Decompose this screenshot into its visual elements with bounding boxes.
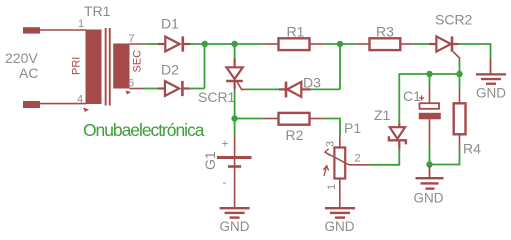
node dot R4 top / SCR2 gate	[456, 71, 462, 77]
svg-text:Z1: Z1	[374, 107, 391, 123]
svg-text:R3: R3	[376, 24, 394, 40]
wire SCR2 gate down	[459, 61, 461, 74]
svg-text:3: 3	[325, 141, 337, 147]
ground under P1	[325, 207, 355, 219]
svg-text:GND: GND	[220, 219, 250, 234]
battery G1	[217, 134, 252, 207]
wire R4 bottom to gnd node	[430, 149, 460, 165]
svg-text:TR1: TR1	[84, 3, 111, 19]
connector X1 220V AC pad bottom	[23, 101, 40, 108]
svg-text:SCR2: SCR2	[435, 12, 473, 28]
thyristor SCR2	[429, 36, 460, 62]
svg-text:2: 2	[355, 153, 361, 165]
resistor R2	[265, 113, 325, 125]
resistor R4	[454, 74, 466, 149]
svg-text:AC: AC	[19, 65, 38, 81]
resistor R1	[265, 38, 325, 50]
resistor R3	[355, 38, 414, 50]
svg-text:R1: R1	[287, 24, 305, 40]
node dot SCR1 cathode / R2 / G1	[231, 115, 237, 121]
svg-text:220V: 220V	[5, 50, 38, 66]
zener diode Z1	[389, 123, 406, 149]
origin marker TR1	[83, 108, 89, 113]
wire SEC7 to D1	[147, 43, 159, 45]
diode D3	[279, 82, 311, 98]
transformer TR1 secondary winding SEC	[113, 44, 129, 89]
svg-text:Onubaelectrónica: Onubaelectrónica	[83, 120, 205, 140]
svg-text:GND: GND	[325, 219, 355, 234]
transformer TR1 core line 2	[109, 28, 111, 106]
wire SCR1 cathode down	[234, 89, 236, 119]
wire D1 out bus y44	[190, 43, 265, 45]
wire SEC6 to D2	[143, 88, 158, 90]
svg-text:D1: D1	[161, 16, 179, 32]
svg-text:GND: GND	[476, 86, 506, 101]
diode D1	[158, 36, 190, 51]
svg-text:C1: C1	[403, 88, 421, 104]
svg-text:SEC: SEC	[132, 50, 144, 73]
svg-text:G1: G1	[202, 151, 218, 170]
wire node to R2	[235, 118, 265, 120]
thyristor SCR1	[226, 58, 246, 89]
potentiometer P1	[323, 135, 369, 207]
diode D2	[158, 81, 189, 96]
svg-text:GND: GND	[414, 191, 444, 206]
wire corner up to R1/R3 node	[339, 44, 341, 89]
transformer TR1 primary winding PRI	[86, 30, 102, 105]
svg-text:1: 1	[78, 18, 84, 30]
wire D2 out to corner	[189, 88, 204, 90]
svg-text:D3: D3	[303, 75, 321, 91]
plus mark C1 red	[419, 95, 424, 100]
svg-text:R2: R2	[286, 127, 304, 143]
node dot D1/D2 junction	[202, 41, 208, 47]
svg-text:R4: R4	[463, 141, 481, 157]
wire G1 from node	[234, 119, 236, 136]
svg-text:4: 4	[77, 94, 83, 106]
wire SEC pin6 stub	[130, 88, 144, 90]
capacitor C1 polarized	[419, 74, 441, 145]
node dot SCR1 anode junction	[231, 41, 237, 47]
svg-text:+: +	[222, 137, 229, 151]
transformer TR1 core line 1	[105, 28, 107, 106]
svg-text:1: 1	[326, 184, 338, 190]
wire R1 to R3	[324, 43, 354, 45]
ground TR right	[476, 59, 506, 85]
wire SCR1 gate to D3	[246, 88, 280, 90]
svg-text:-: -	[223, 175, 227, 189]
wire SCR2 cathode to gnd corner	[459, 44, 491, 60]
svg-text:D2: D2	[161, 62, 179, 78]
wire SEC pin7 stub	[130, 43, 147, 45]
wire P1 wiper to Z1 corner	[370, 148, 400, 165]
node dot R1/R3/D3	[337, 41, 343, 47]
origin marker SEC gate	[126, 91, 132, 95]
wire Z1 top to node	[399, 74, 459, 124]
ground bottom right	[416, 166, 444, 190]
wire D3 anode to corner	[311, 88, 340, 90]
connector X1 220V AC pad top	[23, 27, 40, 33]
svg-text:SCR1: SCR1	[198, 89, 236, 105]
wire pad1 to TR1 pin 1	[40, 29, 86, 31]
svg-text:PRI: PRI	[71, 57, 83, 75]
wire C1 bottom to gnd node	[429, 145, 431, 165]
ground under G1	[220, 207, 250, 219]
wire R2 to P1 corner	[324, 119, 340, 136]
node dot gnd bottom	[426, 161, 432, 167]
node dot C1 top	[426, 71, 432, 77]
wire SCR1 anode from bus	[234, 44, 236, 59]
wire pad2 to TR1 pin 4	[40, 103, 86, 105]
svg-text:P1: P1	[344, 120, 361, 136]
wire corner up to D1 junction	[204, 44, 206, 89]
wire R3 to SCR2	[414, 43, 429, 45]
